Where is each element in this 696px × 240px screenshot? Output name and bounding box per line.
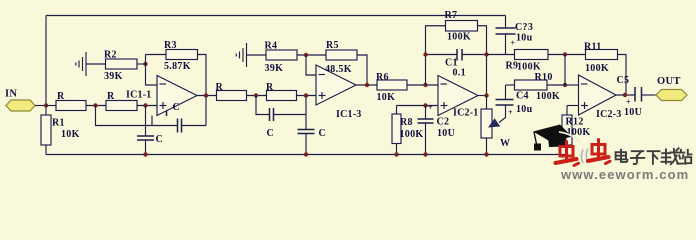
wire ground to R2	[86, 63, 106, 65]
svg-text:10K: 10K	[61, 129, 80, 140]
svg-text:R2: R2	[104, 50, 117, 61]
wire to IC2-3 - input	[565, 84, 579, 86]
wire feedback column	[205, 96, 207, 126]
resistor R3 5.87K	[164, 40, 198, 72]
svg-text:39K: 39K	[265, 63, 284, 74]
svg-text:C4: C4	[516, 91, 529, 102]
svg-text:IC1-3: IC1-3	[336, 109, 361, 120]
wire R3 right to output column	[198, 55, 207, 96]
wire R11 right to output	[618, 55, 627, 96]
svg-text:R: R	[107, 91, 115, 102]
node bottom rail junction 1	[143, 152, 147, 156]
resistor R1	[41, 115, 80, 145]
wire R7 loop left column	[426, 26, 446, 85]
svg-text:IC1-1: IC1-1	[126, 90, 151, 101]
svg-text:10u: 10u	[516, 33, 533, 44]
resistor R4 39K	[265, 41, 298, 75]
svg-text:100K: 100K	[585, 63, 609, 74]
node IC1-1 output junction	[204, 93, 208, 97]
node C1 right junction	[484, 52, 488, 56]
wire ground to R4	[247, 54, 267, 56]
node IC1-1 + input junction	[143, 103, 147, 107]
svg-text:C5: C5	[617, 75, 630, 86]
capacitor C5 10U	[617, 75, 643, 118]
svg-text:R8: R8	[400, 117, 413, 128]
op-amp IC1-3	[316, 65, 361, 120]
watermark character 虫 (2)	[588, 140, 610, 164]
svg-text:100K: 100K	[447, 32, 471, 43]
svg-text:100K: 100K	[517, 62, 541, 73]
wire R6 to IC2-1 - input	[407, 84, 438, 86]
svg-text:IC2-1: IC2-1	[453, 108, 478, 119]
watermark text www.eeworm.com	[560, 167, 689, 182]
resistor R6 10K	[376, 72, 407, 103]
watermark graduation cap	[533, 125, 581, 151]
wire to IC1-3 + input	[297, 95, 317, 97]
svg-text:+: +	[428, 103, 433, 112]
wire IC2-3 output	[616, 94, 635, 96]
node C1 left junction	[423, 52, 427, 56]
svg-text:10u: 10u	[516, 104, 533, 115]
watermark text 子	[631, 151, 644, 164]
capacitor C1 0.1	[426, 49, 487, 79]
resistor R9 100K	[506, 50, 549, 73]
node bottom rail junction 5	[484, 152, 488, 156]
ground (stage2)	[236, 43, 246, 67]
svg-text:R: R	[266, 82, 274, 93]
svg-text:R10: R10	[535, 72, 553, 83]
op-amp IC1-1	[126, 76, 197, 116]
svg-text:R11: R11	[584, 42, 602, 53]
svg-text:R: R	[57, 91, 65, 102]
node R2/R3 junction	[143, 62, 147, 66]
node C2 top junction	[423, 103, 427, 107]
watermark text 电	[616, 150, 628, 162]
svg-text:R12: R12	[566, 117, 584, 128]
svg-text:R3: R3	[164, 40, 177, 51]
op-amp IC2-3	[579, 75, 622, 120]
resistor R7 100K	[445, 10, 478, 43]
wire stage1 input row	[46, 105, 56, 107]
wire inverting input column IC1-1	[146, 55, 158, 86]
svg-text:R: R	[216, 82, 224, 93]
resistor R11 100K	[584, 42, 618, 75]
svg-text:+: +	[626, 98, 631, 107]
node IC2-1 - input junction	[423, 83, 427, 87]
wire IC2-1 output	[478, 95, 487, 97]
wire top rail	[46, 15, 506, 17]
wire IC1-1 output	[197, 95, 217, 97]
wire C5 to OUT	[642, 94, 657, 96]
wire IC1-3 inverting column	[306, 55, 316, 75]
node bottom rail junction 3	[394, 152, 398, 156]
resistor R (stage2 first)	[216, 82, 247, 101]
svg-text:0.1: 0.1	[453, 68, 466, 79]
node IC2-1 output junction	[484, 93, 488, 97]
capacitor C (inside IC1-1 loop)	[167, 102, 181, 116]
wire	[86, 105, 106, 107]
resistor R5 48.5K	[325, 40, 357, 75]
wire to IC1-1 + input	[137, 105, 157, 107]
node R4/R5 junction	[304, 53, 308, 57]
svg-text:+: +	[508, 108, 513, 117]
wire feedback row	[96, 106, 207, 126]
svg-text:10U: 10U	[624, 107, 642, 118]
svg-text:+: +	[511, 39, 516, 48]
svg-text:C: C	[173, 102, 181, 113]
svg-text:5.87K: 5.87K	[164, 61, 191, 72]
svg-text:R1: R1	[52, 118, 65, 129]
svg-text:R7: R7	[445, 10, 458, 21]
capacitor C3 10u	[496, 16, 534, 55]
resistor R8 100K	[392, 106, 423, 155]
node R10/IC2-3 - junction	[563, 83, 567, 87]
capacitor C (stage1 to ground)	[137, 134, 163, 145]
capacitor C2 10U	[418, 103, 456, 155]
svg-text:C: C	[267, 128, 275, 139]
node bottom rail junction 4	[423, 152, 427, 156]
wire IC2-3 + input	[567, 105, 579, 107]
node IC1-3 + input junction	[304, 93, 308, 97]
capacitor C (stage2 series)	[267, 108, 275, 139]
capacitor C (IC1-1 feedback)	[178, 119, 182, 133]
wire cap column	[145, 106, 147, 155]
wire R10 to node	[547, 84, 565, 86]
svg-text:W: W	[500, 138, 510, 149]
op-amp IC2-1	[438, 76, 478, 119]
svg-text:100K: 100K	[536, 91, 560, 102]
wire R7 right column	[478, 26, 487, 96]
svg-text:C?3: C?3	[515, 22, 533, 33]
resistor R12 100K	[562, 106, 590, 155]
wire IC1-3 output	[356, 84, 377, 86]
svg-text:R4: R4	[265, 41, 278, 52]
resistor R (stage1 first)	[56, 91, 86, 111]
svg-text:OUT: OUT	[657, 76, 681, 87]
svg-text:C: C	[156, 134, 164, 145]
capacitor C (stage2 shunt)	[298, 128, 327, 139]
svg-text:39K: 39K	[104, 71, 123, 82]
wire wiper arrow	[488, 105, 506, 128]
node R9/R11 junction	[563, 52, 567, 56]
wire left rail lower (through R1)	[45, 106, 47, 155]
watermark text 下	[648, 151, 660, 164]
node IC1-3 output junction	[365, 83, 369, 87]
potentiometer W	[481, 96, 510, 155]
svg-text:IC2-3: IC2-3	[596, 109, 621, 120]
svg-text:IN: IN	[5, 89, 17, 100]
wire stage2 shunt column	[305, 96, 307, 155]
connector OUT	[656, 76, 687, 101]
wire IN to rail	[35, 105, 46, 107]
wire C4 top row	[506, 84, 515, 86]
wire bottom rail	[46, 154, 567, 156]
resistor R (stage2 second)	[266, 82, 297, 101]
node stage1 mid junction	[93, 103, 97, 107]
resistor R (stage1 second)	[106, 91, 137, 111]
node bottom rail junction 2	[304, 152, 308, 156]
wire R5 right to output column	[357, 55, 367, 85]
wire R9 to node	[548, 54, 586, 56]
watermark text 载	[662, 148, 679, 164]
wire output row to R9	[487, 54, 515, 56]
wire R4 to node	[297, 54, 326, 56]
node stage2 mid junction	[254, 93, 258, 97]
svg-text:10U: 10U	[437, 128, 455, 139]
svg-text:C: C	[319, 128, 327, 139]
ground (stage1)	[76, 52, 86, 76]
watermark text 站	[677, 150, 691, 164]
resistor R2 39K	[104, 50, 137, 83]
connector IN	[5, 89, 35, 112]
svg-text:100K: 100K	[400, 129, 424, 140]
wire	[247, 95, 267, 97]
wire left rail upper	[45, 16, 47, 106]
node output junction	[623, 93, 627, 97]
watermark accent marks	[581, 149, 587, 164]
wire R3 left	[146, 54, 167, 56]
svg-text:www.eeworm.com: www.eeworm.com	[560, 167, 689, 180]
wire R2 to node	[137, 63, 146, 65]
watermark character 虫 (1)	[556, 142, 579, 166]
wire IC2-1 + input row	[397, 105, 439, 107]
wire stage2 cap row	[256, 96, 306, 115]
svg-text:R6: R6	[376, 72, 389, 83]
svg-text:10K: 10K	[377, 92, 396, 103]
node IN junction	[44, 103, 48, 107]
capacitor C4 10u	[496, 85, 533, 117]
wire R9/R10 column	[564, 55, 566, 86]
svg-text:R5: R5	[326, 40, 339, 51]
resistor R10 100K	[515, 72, 560, 102]
svg-text:C2: C2	[437, 117, 450, 128]
